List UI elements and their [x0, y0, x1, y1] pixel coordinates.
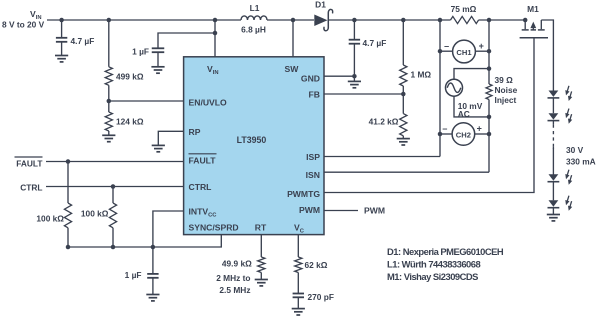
svg-text:41.2 kΩ: 41.2 kΩ	[369, 117, 399, 127]
svg-text:LT3950: LT3950	[237, 135, 267, 145]
capacitor 1uF input	[132, 33, 215, 67]
svg-text:30 V: 30 V	[566, 145, 584, 155]
svg-text:PWMTG: PWMTG	[287, 189, 320, 199]
svg-text:4.7 µF: 4.7 µF	[71, 36, 95, 46]
wire sense right vertical	[487, 18, 492, 172]
svg-text:CH1: CH1	[456, 48, 472, 57]
svg-text:AC: AC	[458, 109, 470, 119]
resistor 499k	[105, 67, 144, 86]
svg-text:SYNC/SPRD: SYNC/SPRD	[189, 223, 239, 233]
svg-text:ISN: ISN	[306, 170, 320, 180]
svg-text:M1: Vishay Si2309CDS: M1: Vishay Si2309CDS	[387, 271, 478, 282]
wire FB branch	[401, 18, 406, 139]
pin label GND	[301, 74, 320, 84]
pin label FAULT	[189, 154, 217, 166]
svg-text:+: +	[477, 124, 482, 134]
ground under 1uF intvcc	[146, 295, 159, 301]
wire FB	[324, 92, 406, 97]
svg-text:CH2: CH2	[456, 130, 471, 139]
svg-text:2 MHz to: 2 MHz to	[216, 273, 250, 283]
resistor 41.2k	[369, 114, 407, 136]
ground LED string	[547, 215, 560, 221]
pin label ISN	[306, 170, 320, 180]
svg-text:M1: M1	[527, 4, 539, 14]
probe CH2	[440, 123, 489, 146]
svg-text:2.5 MHz: 2.5 MHz	[219, 285, 250, 295]
resistor 62k	[295, 257, 328, 273]
resistor 100k right	[81, 187, 117, 248]
svg-text:1 µF: 1 µF	[132, 47, 149, 57]
pin label PWM	[299, 205, 320, 215]
capacitor C1 4.7uF	[56, 20, 94, 55]
svg-text:FAULT: FAULT	[189, 156, 217, 166]
svg-text:FAULT: FAULT	[16, 159, 42, 169]
svg-text:75 mΩ: 75 mΩ	[451, 4, 477, 14]
wire RP	[158, 131, 183, 145]
svg-text:RT: RT	[255, 223, 267, 233]
svg-text:Noise: Noise	[495, 85, 518, 95]
wire led4-gnd	[552, 208, 554, 215]
ground under 41.2k	[397, 139, 410, 145]
wire ISP	[324, 156, 440, 158]
node VIN input label	[2, 9, 45, 30]
svg-text:L1: L1	[250, 3, 260, 13]
svg-text:100 kΩ: 100 kΩ	[81, 208, 109, 218]
svg-text:FB: FB	[309, 90, 320, 100]
wire EN/UVLO	[107, 99, 184, 104]
label 30V	[566, 145, 596, 167]
pin label RP	[189, 127, 201, 137]
resistor 124k	[105, 112, 144, 131]
resistor 75mohm	[451, 4, 479, 24]
wire led dashed	[552, 121, 554, 149]
source AC 10mV	[446, 69, 490, 120]
ground under 124k	[102, 135, 115, 141]
node FAULT label	[15, 157, 43, 169]
svg-text:SW: SW	[285, 64, 300, 74]
probe CH1	[440, 40, 489, 63]
wire INTVCC	[153, 211, 184, 247]
resistor 1M	[400, 65, 432, 86]
svg-text:D1: D1	[315, 0, 326, 10]
svg-text:–: –	[442, 124, 447, 134]
svg-text:100 kΩ: 100 kΩ	[36, 213, 64, 223]
svg-text:+: +	[479, 41, 484, 51]
wire bottom rail	[66, 235, 222, 250]
svg-text:270 pF: 270 pF	[308, 292, 334, 302]
wire ISN	[324, 171, 489, 173]
wire led1-2	[552, 98, 554, 113]
svg-text:330 mA: 330 mA	[566, 157, 596, 167]
svg-text:–: –	[444, 41, 449, 51]
svg-text:1 µF: 1 µF	[125, 270, 142, 280]
svg-text:124 kΩ: 124 kΩ	[116, 117, 144, 127]
pin label PWMTG	[287, 189, 320, 199]
junction dots input rail	[59, 18, 111, 23]
wire GND pin	[324, 75, 354, 77]
pin label SW	[285, 64, 300, 74]
wire FAULT	[46, 159, 184, 164]
svg-text:6.8 µH: 6.8 µH	[241, 25, 266, 35]
ground under 270pF	[292, 309, 305, 315]
pin label ISP	[306, 152, 320, 162]
diode D1	[314, 0, 332, 31]
pin label VC	[294, 223, 305, 235]
transistor M1	[520, 4, 554, 91]
label parts list	[387, 246, 504, 282]
pin label VIN	[207, 64, 219, 76]
wire VC	[297, 235, 299, 257]
svg-text:PWM: PWM	[299, 205, 320, 215]
LED 1	[548, 85, 574, 101]
capacitor C2 4.7uF out	[349, 18, 387, 81]
wire PWMTG	[324, 38, 534, 193]
pin label FB	[309, 90, 320, 100]
svg-text:CTRL: CTRL	[189, 182, 212, 192]
svg-text:49.9 kΩ: 49.9 kΩ	[222, 259, 252, 269]
pin label CTRL	[189, 182, 212, 192]
svg-text:EN/UVLO: EN/UVLO	[189, 98, 228, 108]
svg-text:RP: RP	[189, 127, 201, 137]
svg-text:1 MΩ: 1 MΩ	[411, 70, 432, 80]
wire input rail	[47, 19, 525, 21]
wire SW pin	[291, 18, 296, 57]
op-amp U1 LT3950 body	[184, 57, 324, 235]
wire VIN pin	[213, 18, 218, 57]
wire led2-3	[552, 149, 554, 175]
ground under 49.9k	[255, 280, 268, 286]
resistor 39ohm noise	[486, 75, 518, 105]
pin label RT	[255, 223, 267, 233]
capacitor 1uF intvcc	[125, 247, 159, 294]
svg-text:499 kΩ: 499 kΩ	[116, 72, 144, 82]
inductor L1	[241, 3, 267, 35]
LED 3	[548, 169, 574, 185]
wire PWM	[324, 206, 385, 216]
LED 2	[548, 108, 574, 124]
svg-text:39 Ω: 39 Ω	[495, 75, 514, 85]
svg-text:D1: Nexperia PMEG6010CEH: D1: Nexperia PMEG6010CEH	[387, 246, 504, 257]
resistor 49.9k	[216, 257, 265, 295]
svg-text:Inject: Inject	[495, 95, 517, 105]
wire led3-4	[552, 182, 554, 201]
svg-text:L1: Würth 74438336068: L1: Würth 74438336068	[387, 259, 480, 270]
pin label INTVCC	[189, 207, 218, 219]
pin label EN/UVLO	[189, 98, 228, 108]
svg-text:PWM: PWM	[364, 206, 385, 216]
svg-text:CTRL: CTRL	[20, 183, 42, 193]
node CTRL label	[20, 183, 42, 193]
ground under C2	[348, 81, 361, 87]
pin label SYNC/SPRD	[189, 223, 239, 233]
svg-text:4.7 µF: 4.7 µF	[363, 38, 387, 48]
wire CTRL	[46, 184, 184, 189]
svg-text:8 V to 20 V: 8 V to 20 V	[2, 20, 45, 30]
svg-text:62 kΩ: 62 kΩ	[305, 260, 328, 270]
ground under C1	[55, 56, 68, 62]
wire divider branch	[108, 20, 110, 135]
resistor 100k left	[36, 162, 71, 248]
wire RT	[260, 235, 262, 257]
ground RP	[152, 145, 165, 151]
svg-text:ISP: ISP	[306, 152, 320, 162]
LED 4	[548, 195, 574, 211]
svg-text:GND: GND	[301, 74, 320, 84]
wire sense left vertical	[438, 18, 443, 157]
ground under 1uF	[151, 67, 164, 73]
capacitor 270pF	[293, 273, 334, 309]
